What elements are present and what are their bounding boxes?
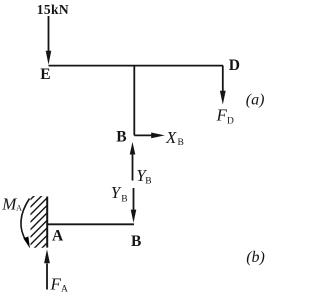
svg-text:B: B	[121, 195, 127, 205]
svg-text:B: B	[131, 233, 141, 250]
svg-text:B: B	[145, 177, 151, 187]
svg-text:B: B	[178, 138, 184, 148]
svg-text:X: X	[165, 128, 177, 147]
svg-text:(b): (b)	[246, 249, 265, 266]
svg-text:F: F	[50, 275, 62, 293]
svg-text:E: E	[40, 66, 50, 83]
svg-text:F: F	[216, 106, 228, 125]
svg-text:D: D	[229, 57, 240, 74]
svg-text:B: B	[116, 129, 126, 146]
svg-text:A: A	[52, 228, 64, 245]
svg-text:15kN: 15kN	[37, 2, 69, 17]
svg-text:D: D	[227, 117, 234, 127]
svg-text:A: A	[16, 204, 22, 213]
svg-text:(a): (a)	[246, 92, 265, 109]
svg-text:A: A	[61, 285, 68, 293]
svg-text:M: M	[1, 195, 17, 214]
svg-text:Y: Y	[111, 183, 122, 202]
